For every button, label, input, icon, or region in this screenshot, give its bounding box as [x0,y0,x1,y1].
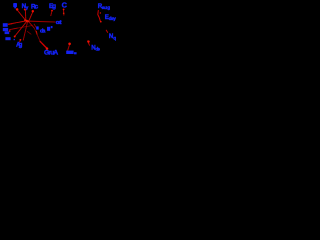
svg-text:y: y [26,6,29,11]
svg-text:da: da [40,29,46,35]
svg-text:Rc: Rc [31,3,39,10]
svg-text:dsy: dsy [109,16,117,21]
svg-text:q: q [113,36,116,41]
svg-text:aug: aug [102,5,110,10]
svg-text:cat: cat [56,20,62,26]
svg-text:GruA: GruA [44,50,58,57]
svg-text:Eg: Eg [49,3,56,10]
svg-text:C: C [62,0,68,9]
svg-text:Ag: Ag [16,41,22,48]
svg-text:de: de [95,47,100,52]
